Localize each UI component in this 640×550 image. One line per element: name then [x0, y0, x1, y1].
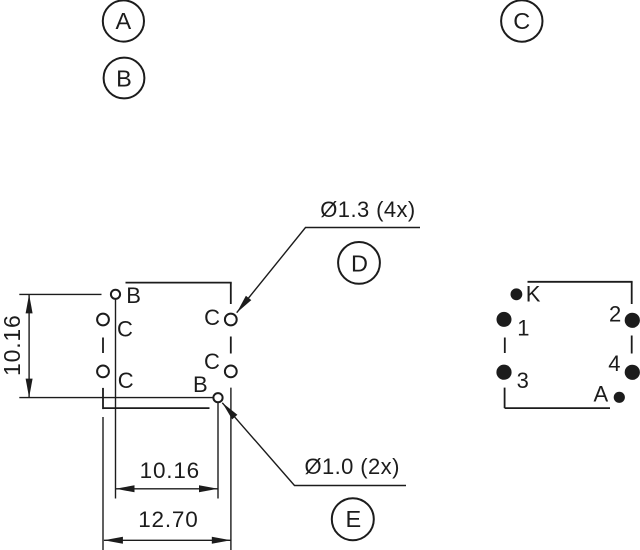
pinout outline right edge upper segment	[631, 282, 633, 304]
arrowhead down of vertical dim	[26, 379, 33, 398]
svg-text:12.70: 12.70	[138, 507, 198, 532]
pin 3 dot	[496, 365, 511, 380]
svg-text:B: B	[116, 65, 132, 91]
arrowhead of D leader	[237, 296, 252, 313]
hole C1 (O/1.3) left upper	[97, 314, 109, 326]
balloon D	[338, 242, 380, 284]
arrowhead left of horizontal dim 10.16	[116, 485, 135, 492]
svg-text:Ø1.3 (4x): Ø1.3 (4x)	[320, 197, 415, 222]
svg-text:A: A	[116, 8, 132, 34]
arrowhead of E leader	[222, 403, 237, 420]
extension line top for vertical dim 10.16	[19, 293, 101, 295]
svg-text:B: B	[193, 372, 208, 397]
arrowhead left of horizontal dim 12.70	[104, 537, 123, 544]
hole B1 (O/1.0) top left	[111, 290, 120, 299]
balloon A	[103, 0, 144, 41]
horizontal dimension line 12.70	[104, 539, 231, 541]
footprint outline bottom edge	[103, 407, 210, 409]
vertical dimension line 10.16	[28, 294, 30, 397]
svg-text:10.16: 10.16	[140, 458, 200, 483]
leader line for E callout	[222, 403, 406, 486]
footprint outline right edge dash	[230, 337, 232, 354]
arrowhead right of horizontal dim 12.70	[212, 537, 231, 544]
svg-text:C: C	[204, 305, 220, 330]
extension line from hole B2 down	[217, 403, 219, 499]
arrowhead up of vertical dim	[26, 294, 33, 313]
balloon C	[501, 0, 542, 41]
svg-text:C: C	[204, 349, 220, 374]
extension line bottom for vertical dim 10.16	[19, 397, 213, 399]
pinout outline right edge dash	[631, 336, 633, 354]
pin A dot	[614, 392, 625, 403]
pinout outline bottom edge	[505, 407, 610, 409]
svg-text:2: 2	[609, 302, 621, 327]
pin K dot	[511, 288, 523, 300]
hole C2 (O/1.3) left lower	[97, 366, 109, 378]
leader line for D callout	[237, 228, 420, 313]
pinout outline left edge dash	[504, 338, 506, 354]
extension line from hole B1 down	[115, 300, 117, 499]
svg-text:C: C	[118, 368, 134, 393]
balloon E	[332, 498, 374, 540]
footprint outline left edge lower segment	[102, 388, 104, 409]
pinout outline top edge	[528, 281, 633, 283]
hole C3 (O/1.3) right upper	[225, 314, 237, 326]
svg-text:B: B	[126, 283, 141, 308]
pinout outline left edge lower segment	[504, 388, 506, 409]
pin 1 dot	[497, 312, 512, 327]
svg-text:E: E	[345, 506, 361, 532]
svg-text:D: D	[351, 250, 368, 276]
footprint outline top edge	[126, 282, 232, 284]
extension line left for dim 12.70	[102, 417, 104, 550]
pin 4 dot	[625, 365, 640, 380]
svg-text:1: 1	[517, 316, 529, 341]
pin 2 dot	[625, 313, 640, 328]
svg-text:4: 4	[608, 351, 620, 376]
hole B2 (O/1.0) bottom right	[213, 393, 222, 402]
svg-text:C: C	[117, 316, 133, 341]
svg-text:K: K	[526, 282, 541, 307]
footprint outline left edge dash	[102, 338, 104, 354]
hole C4 (O/1.3) right lower	[225, 366, 237, 378]
arrowhead right of horizontal dim 10.16	[199, 485, 218, 492]
svg-text:A: A	[594, 382, 609, 407]
footprint outline right edge upper segment	[230, 283, 232, 304]
horizontal dimension line 10.16	[116, 488, 219, 490]
svg-text:3: 3	[517, 368, 529, 393]
extension line right for dim 12.70	[230, 388, 232, 550]
svg-text:C: C	[513, 8, 530, 34]
svg-text:10.16: 10.16	[0, 314, 25, 376]
balloon B	[104, 58, 145, 99]
svg-text:Ø1.0 (2x): Ø1.0 (2x)	[305, 454, 400, 479]
